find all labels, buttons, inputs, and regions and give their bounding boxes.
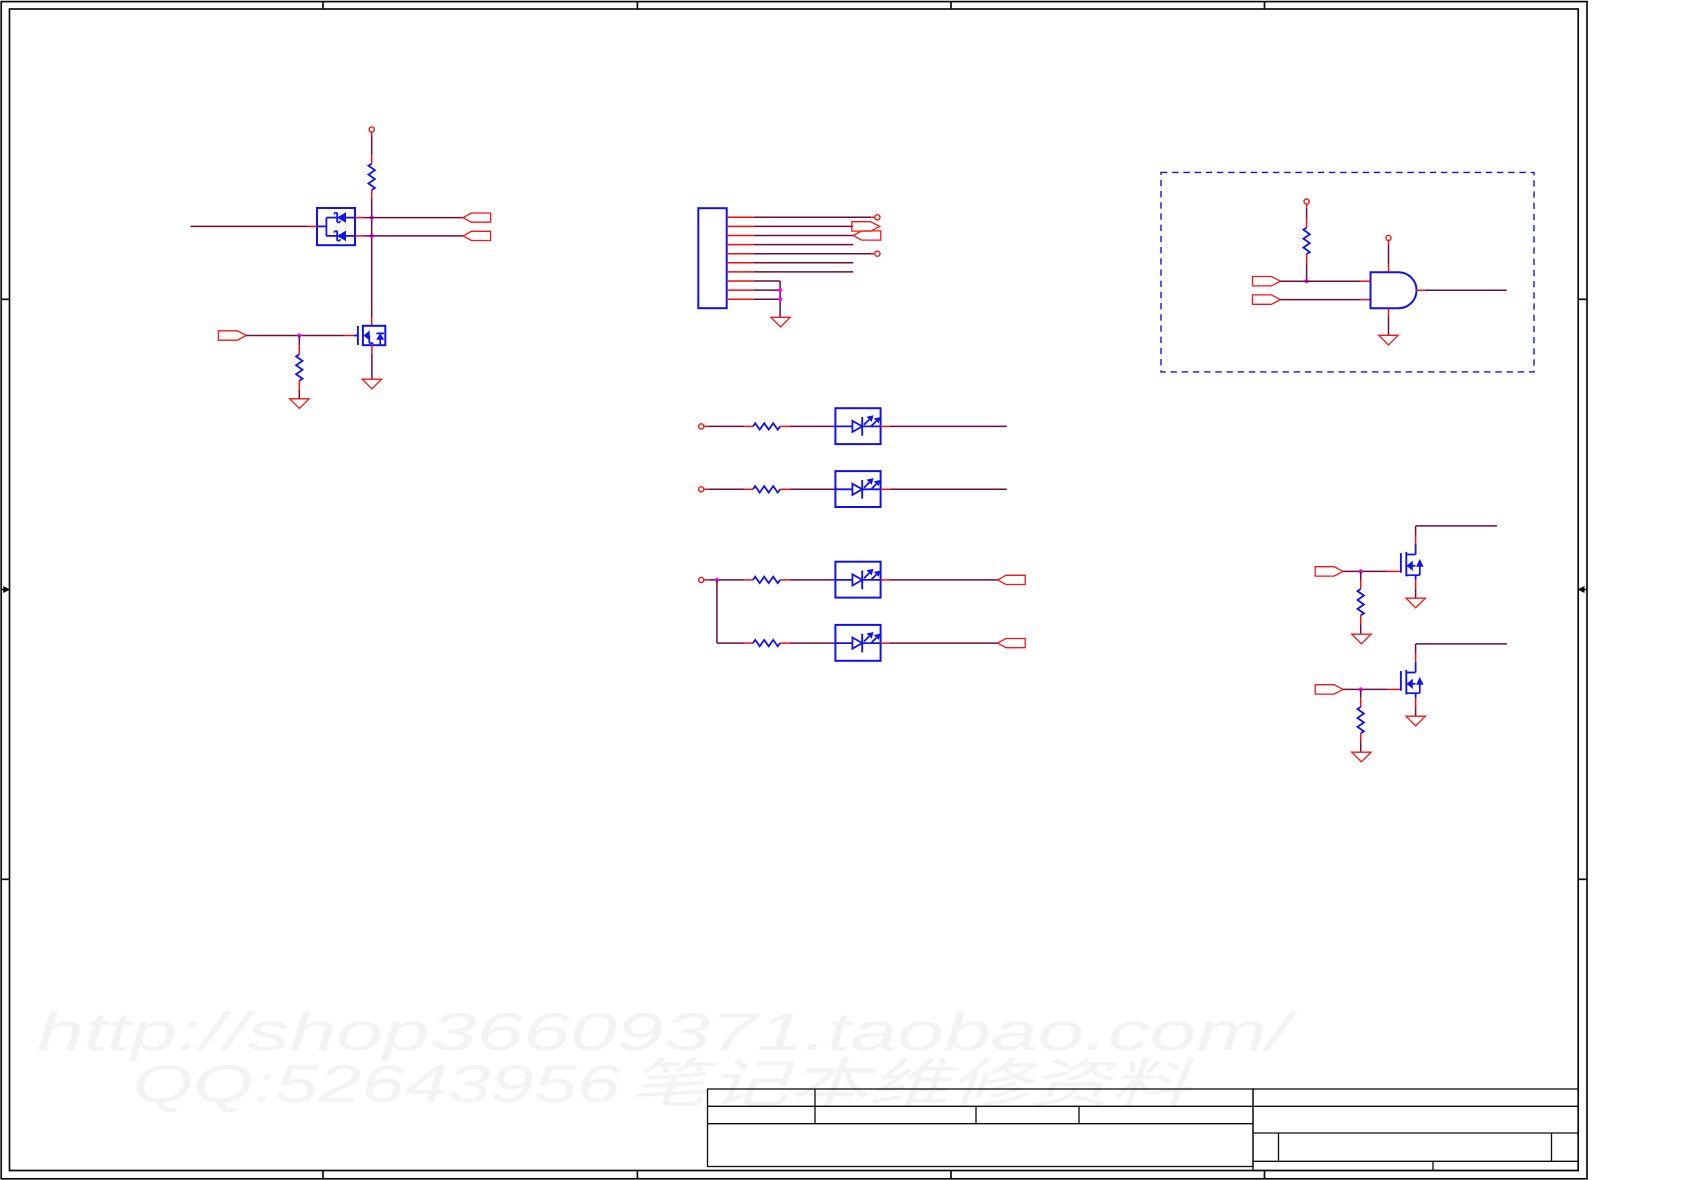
svg-text:笔记本维修资料: 笔记本维修资料 (628, 1055, 1195, 1114)
svg-text:QQ:52643956: QQ:52643956 (133, 1055, 621, 1114)
svg-text:http://shop36609371.taobao.com: http://shop36609371.taobao.com/ (37, 1003, 1298, 1062)
